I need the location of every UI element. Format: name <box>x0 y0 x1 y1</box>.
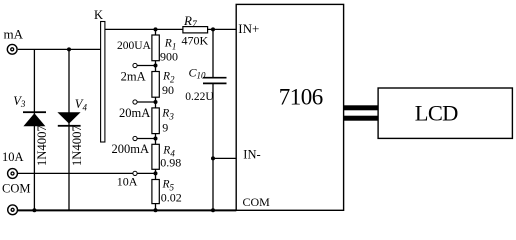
svg-text:9: 9 <box>162 120 168 134</box>
svg-text:10A: 10A <box>117 175 138 189</box>
svg-text:IN+: IN+ <box>238 21 259 36</box>
svg-text:0.98: 0.98 <box>160 156 181 170</box>
svg-text:2mA: 2mA <box>121 70 146 84</box>
svg-text:900: 900 <box>160 49 178 63</box>
svg-text:20mA: 20mA <box>119 106 150 120</box>
svg-text:COM: COM <box>243 195 271 209</box>
svg-text:470K: 470K <box>182 33 209 47</box>
svg-text:200mA: 200mA <box>112 142 150 156</box>
svg-text:IN-: IN- <box>243 147 260 161</box>
svg-text:LCD: LCD <box>415 100 458 125</box>
svg-text:7106: 7106 <box>279 84 323 109</box>
svg-text:0.02: 0.02 <box>161 191 182 205</box>
svg-text:1N4007: 1N4007 <box>70 125 84 166</box>
svg-text:10A: 10A <box>2 150 24 164</box>
svg-text:K: K <box>94 8 103 22</box>
svg-text:mA: mA <box>4 26 24 41</box>
svg-text:COM: COM <box>2 182 30 196</box>
svg-text:1N4007: 1N4007 <box>35 125 49 166</box>
svg-text:90: 90 <box>162 83 174 97</box>
svg-text:200UA: 200UA <box>117 40 152 52</box>
svg-text:0.22U: 0.22U <box>185 91 214 103</box>
